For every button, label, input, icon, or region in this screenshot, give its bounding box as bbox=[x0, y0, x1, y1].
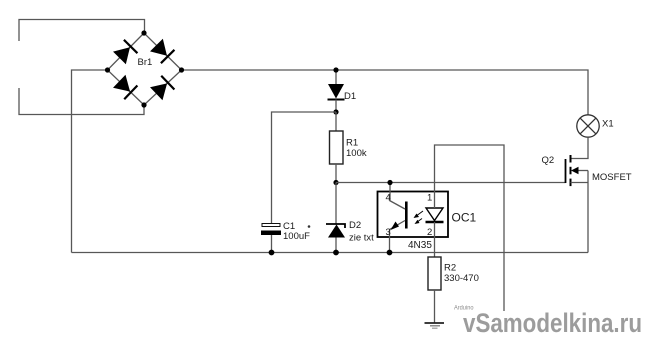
node bridge right bbox=[179, 67, 184, 72]
node D1 cathode junction bbox=[333, 109, 338, 114]
node R1 bottom / gate junction bbox=[333, 180, 338, 185]
svg-text:R1: R1 bbox=[346, 138, 358, 149]
transistor Q2 (N-channel MOSFET) bbox=[566, 155, 589, 186]
svg-text:OC1: OC1 bbox=[452, 211, 477, 225]
bridge Br1 diode bottom-right bbox=[150, 76, 175, 101]
svg-text:100k: 100k bbox=[346, 148, 367, 159]
wire lamp to MOSFET drain bbox=[571, 137, 589, 158]
svg-text:Q2: Q2 bbox=[542, 155, 555, 166]
node bridge bottom bbox=[141, 102, 146, 107]
svg-text:R2: R2 bbox=[444, 263, 456, 274]
node D2 on bottom rail bbox=[333, 250, 339, 256]
svg-text:2: 2 bbox=[427, 227, 432, 238]
svg-text:D1: D1 bbox=[344, 91, 356, 102]
node bridge left bbox=[105, 67, 110, 72]
svg-text:zie txt: zie txt bbox=[349, 233, 374, 244]
svg-text:X1: X1 bbox=[602, 119, 614, 130]
optocoupler OC1 box bbox=[378, 192, 449, 238]
node D1 top (junction on top rail) bbox=[333, 67, 338, 72]
svg-text:1: 1 bbox=[427, 193, 432, 204]
node pin4 junction on gate rail bbox=[387, 180, 392, 185]
wire AC input 1 (top-left stub to bridge top node) bbox=[19, 20, 145, 42]
diode D1 bbox=[328, 70, 345, 112]
bridge Br1 diode top-left bbox=[113, 40, 138, 65]
optocoupler OC1 LED bbox=[426, 208, 444, 222]
bridge Br1 frame bbox=[108, 33, 182, 105]
capacitor C1 bbox=[261, 224, 281, 253]
wire R2 to ground bbox=[434, 290, 436, 323]
ground bbox=[425, 323, 445, 328]
wire bottom rail bbox=[72, 252, 589, 254]
svg-text:MOSFET: MOSFET bbox=[592, 172, 632, 183]
wire D1 junction to C1 bbox=[272, 112, 337, 224]
wire bridge right node to lamp (top rail) bbox=[182, 70, 589, 115]
wire OC1 pin 1 to Arduino (up over and down) bbox=[435, 145, 505, 311]
wire OC1 pin 2 down to R2 bbox=[434, 222, 436, 257]
svg-text:4N35: 4N35 bbox=[408, 240, 432, 251]
wire OC1 pin 3 to bottom rail bbox=[389, 230, 391, 253]
wire MOSFET source to bottom rail bbox=[587, 171, 589, 253]
node pin3 on bottom rail bbox=[387, 250, 393, 256]
optocoupler OC1 light arrows bbox=[414, 211, 424, 224]
svg-text:100uF: 100uF bbox=[283, 231, 310, 242]
bridge Br1 diode bottom-left bbox=[113, 74, 138, 99]
polarity mark for C1 bbox=[308, 225, 311, 228]
wire AC input 2 (lower-left stub to bridge bottom node) bbox=[19, 88, 144, 115]
svg-text:Br1: Br1 bbox=[138, 57, 153, 68]
resistor R1 bbox=[330, 112, 344, 183]
wire OC1 pin 4 from gate rail bbox=[389, 183, 391, 202]
svg-text:3: 3 bbox=[386, 227, 391, 238]
node bridge top bbox=[141, 30, 146, 35]
svg-text:4: 4 bbox=[386, 193, 391, 204]
optocoupler OC1 phototransistor bbox=[390, 201, 407, 231]
svg-text:D2: D2 bbox=[349, 220, 361, 231]
bridge Br1 diode top-right bbox=[150, 38, 175, 63]
svg-text:330-470: 330-470 bbox=[444, 273, 479, 284]
zener diode D2 bbox=[326, 183, 345, 253]
resistor R2 bbox=[428, 257, 441, 290]
lamp X1 bbox=[577, 115, 599, 137]
wire bridge left node to bottom rail bbox=[72, 70, 108, 253]
node C1 on bottom rail bbox=[269, 250, 275, 256]
wire gate rail (R1/D2 junction to MOSFET gate) bbox=[336, 182, 566, 184]
svg-text:vSamodelkina.ru: vSamodelkina.ru bbox=[463, 308, 642, 338]
